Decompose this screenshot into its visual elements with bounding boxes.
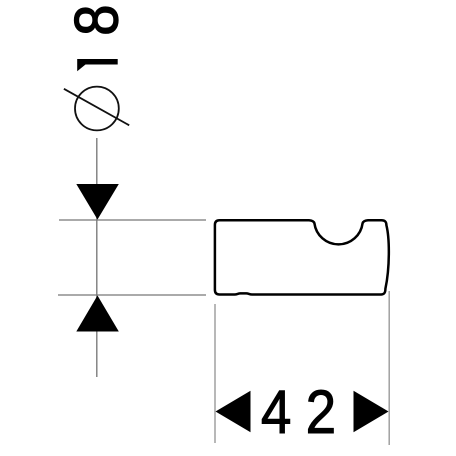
arrow left — [216, 391, 251, 433]
diameter symbol circle — [75, 87, 119, 131]
diameter symbol slash — [64, 89, 129, 126]
svg-text:42: 42 — [261, 378, 350, 446]
arrow up — [76, 296, 119, 332]
arrow right — [354, 391, 389, 433]
extension tick top (18 dim) — [59, 219, 206, 221]
svg-text:8: 8 — [63, 5, 131, 36]
arrow down — [76, 184, 119, 220]
hook profile outline — [215, 220, 389, 294]
dimension line vertical (18) — [96, 138, 98, 377]
label 18 digit 1 (rotated, drawn) — [77, 59, 118, 71]
extension tick bottom (18 dim) — [58, 294, 206, 296]
extension line left (42 dim) — [214, 304, 216, 443]
extension line right (42 dim) — [388, 291, 390, 445]
